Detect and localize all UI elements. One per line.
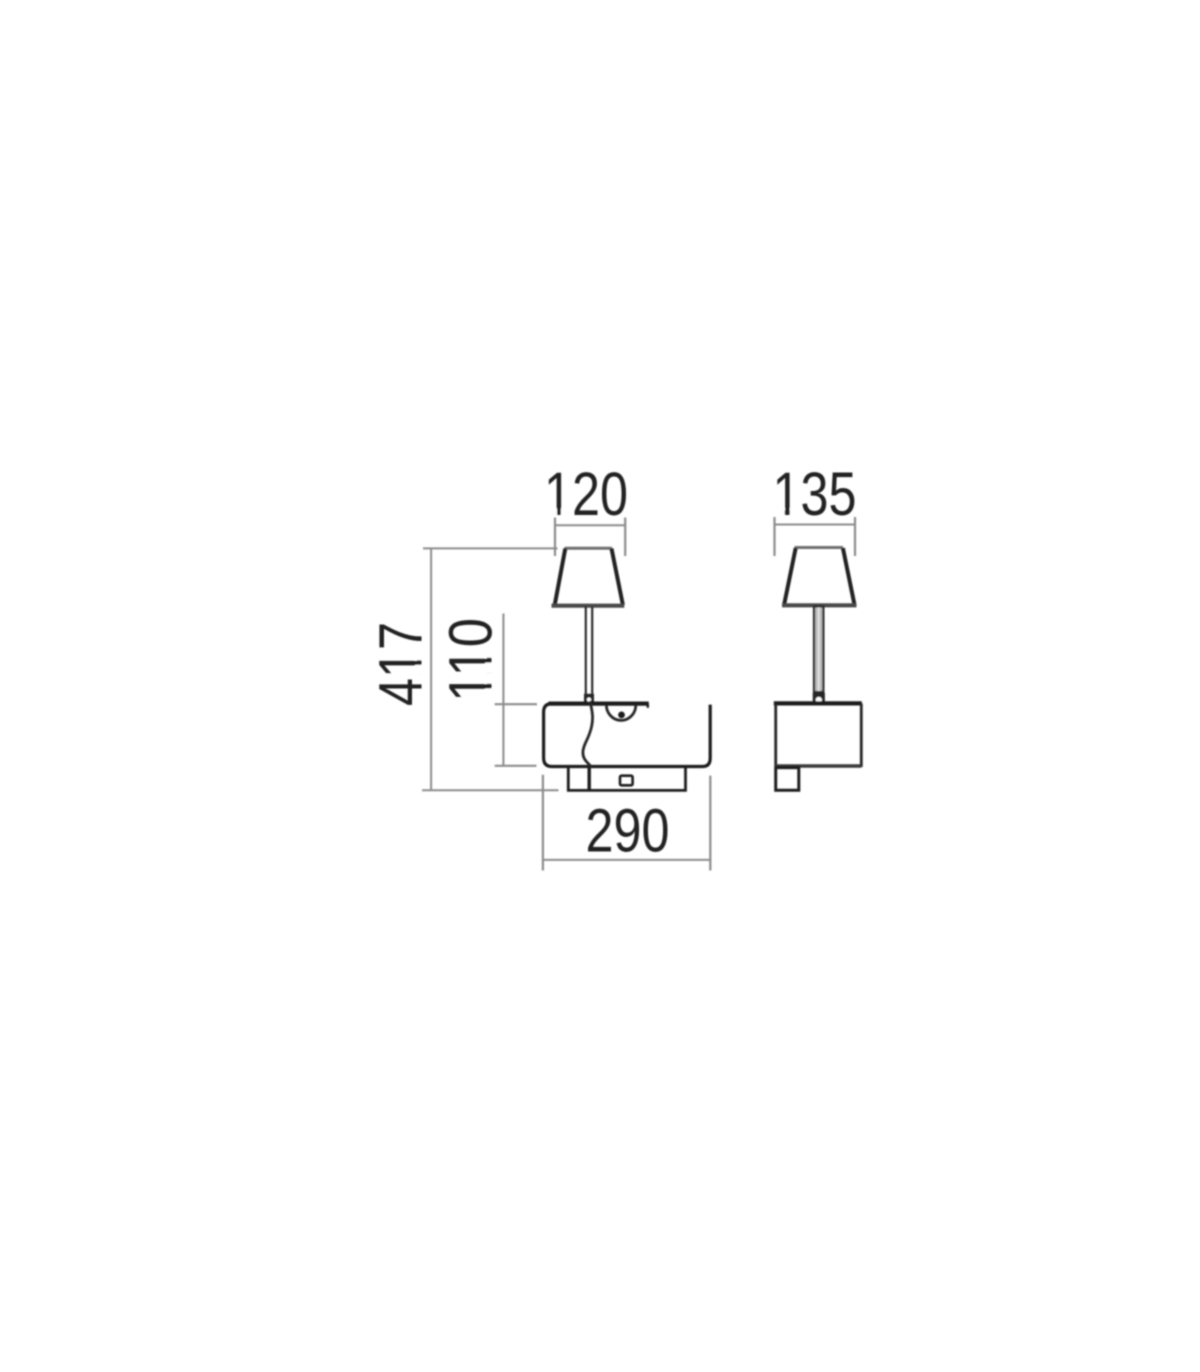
front shelf top line: [549, 701, 649, 705]
front stem right line: [591, 607, 593, 703]
side box right edge: [860, 703, 863, 767]
side shade right slant: [843, 548, 855, 604]
front shade left slant: [555, 549, 566, 605]
front stem left line: [585, 607, 587, 703]
svg-text:120: 120: [544, 460, 628, 528]
front base divider: [588, 768, 591, 791]
front shade top edge: [565, 547, 613, 550]
side box top edge: [774, 701, 862, 705]
side stem body: [814, 607, 823, 693]
front stem joint: [584, 694, 594, 702]
dimension 290 left extension tick: [542, 775, 544, 871]
dimension 417 top extension line: [423, 547, 558, 549]
front usb port: [620, 776, 633, 786]
svg-text:290: 290: [586, 797, 670, 865]
side box left edge: [774, 703, 777, 767]
svg-text:417: 417: [367, 622, 435, 706]
serif masks for digit 1 glyphs: [415, 509, 799, 699]
dimension 120 line: [555, 524, 625, 526]
side stem joint bead: [816, 697, 822, 703]
dimension 135 line: [775, 524, 856, 526]
side shade bottom edge: [782, 603, 857, 607]
dimension 110 line: [502, 614, 504, 767]
dimension 417 line: [430, 548, 432, 790]
dimension 290 right extension tick: [709, 776, 711, 871]
dimension 120 right tick: [624, 518, 626, 557]
front shelf right lip: [647, 704, 649, 708]
side stem joint: [813, 693, 825, 704]
front shelf notch dot: [618, 712, 625, 719]
front shade right slant: [612, 549, 623, 606]
side foot: [776, 767, 799, 790]
side box bottom edge: [776, 764, 862, 767]
front base bracket: [568, 768, 685, 791]
dimension 135 right tick: [854, 517, 856, 556]
front cable wavy line: [583, 701, 593, 767]
front box outline (open-right rounded body): [544, 704, 711, 767]
front shade bottom edge: [552, 604, 625, 608]
svg-text:135: 135: [773, 460, 857, 528]
dimension 110 top tick: [495, 703, 537, 705]
side shade top edge: [795, 546, 844, 549]
front shelf notch arc: [606, 705, 635, 720]
dimension 135 left tick: [773, 517, 775, 556]
dimension 417 bottom extension line: [422, 789, 559, 791]
side stem highlight: [818, 608, 820, 692]
svg-text:110: 110: [437, 618, 505, 702]
dimension 290 line: [542, 859, 711, 861]
side shade left slant: [784, 548, 796, 604]
dimension 120 left tick: [554, 518, 556, 557]
dimension 110 bottom tick: [495, 765, 537, 767]
